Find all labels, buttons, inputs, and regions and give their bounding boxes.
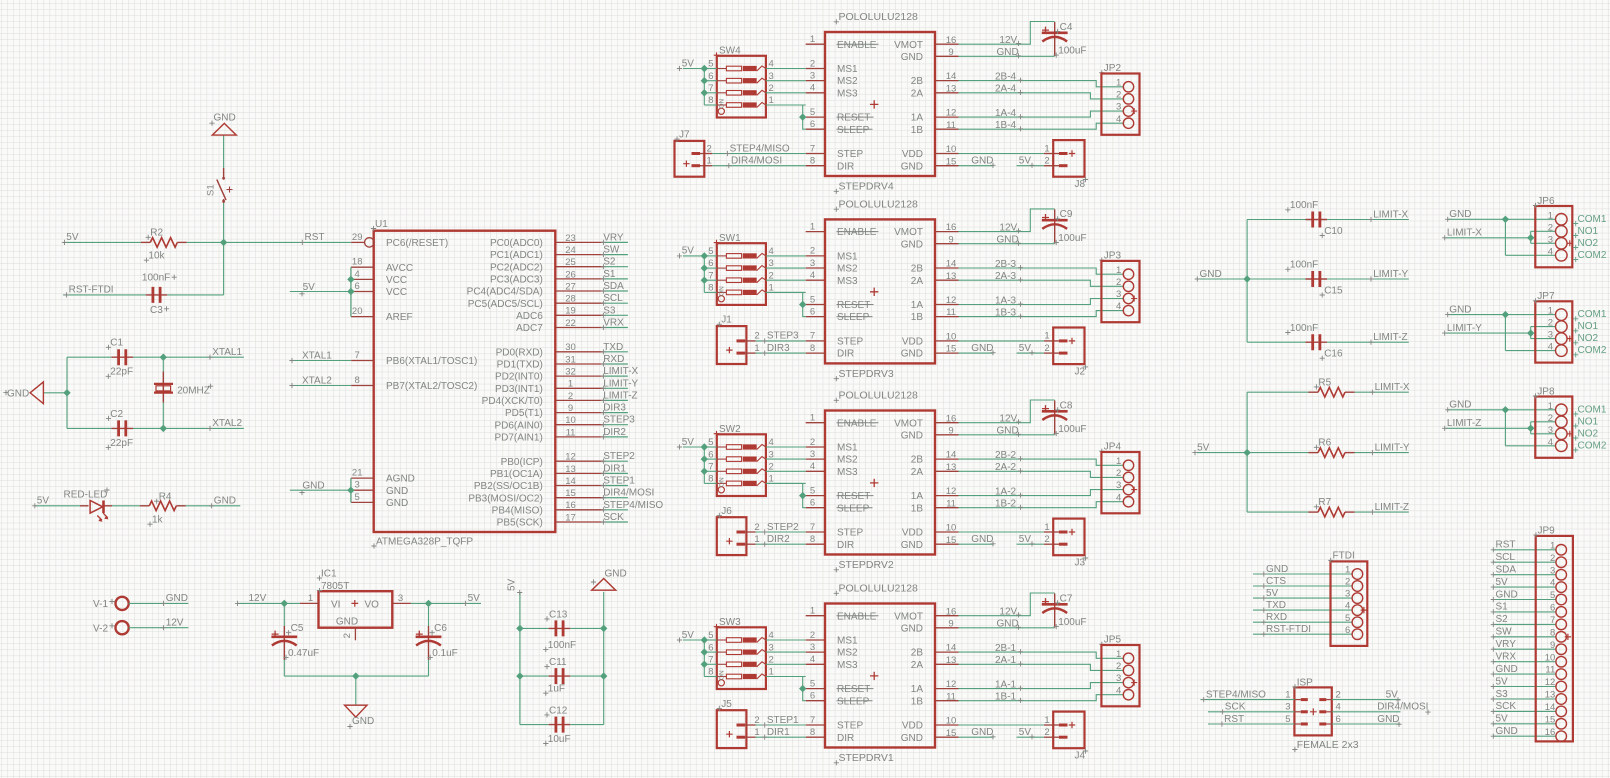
svg-text:4: 4 — [769, 630, 774, 641]
svg-text:6: 6 — [708, 449, 713, 460]
svg-text:1B: 1B — [911, 503, 924, 514]
svg-text:16: 16 — [946, 35, 957, 46]
svg-text:2B: 2B — [911, 455, 924, 466]
svg-text:SDA: SDA — [1496, 565, 1517, 576]
svg-text:VMOT: VMOT — [894, 40, 923, 51]
svg-text:J6: J6 — [721, 506, 732, 517]
svg-text:8: 8 — [810, 534, 815, 545]
svg-text:12V: 12V — [999, 414, 1017, 425]
svg-text:6: 6 — [708, 642, 713, 653]
svg-text:COM1: COM1 — [1578, 309, 1607, 320]
svg-text:2: 2 — [342, 633, 353, 638]
svg-text:12: 12 — [946, 108, 957, 119]
svg-text:GND: GND — [997, 426, 1019, 437]
svg-text:V-1: V-1 — [93, 599, 108, 610]
svg-text:14: 14 — [946, 71, 957, 82]
svg-text:4: 4 — [1336, 702, 1341, 713]
svg-text:PD5(T1): PD5(T1) — [505, 408, 543, 419]
svg-text:NO1: NO1 — [1578, 321, 1599, 332]
svg-text:2: 2 — [1550, 553, 1555, 564]
svg-text:5: 5 — [1550, 590, 1555, 601]
svg-text:PC2(ADC2): PC2(ADC2) — [490, 262, 543, 273]
svg-text:PC1(ADC1): PC1(ADC1) — [490, 250, 543, 261]
svg-text:PB2(SS/OC1B): PB2(SS/OC1B) — [474, 481, 543, 492]
svg-text:1: 1 — [1116, 265, 1121, 276]
svg-text:8: 8 — [810, 156, 815, 167]
svg-text:RESET: RESET — [837, 113, 870, 124]
svg-text:VDD: VDD — [902, 337, 923, 348]
svg-text:0.1uF: 0.1uF — [432, 648, 458, 659]
svg-text:SW: SW — [1496, 627, 1513, 638]
svg-text:11: 11 — [946, 120, 956, 131]
svg-text:25: 25 — [565, 257, 576, 268]
svg-text:4: 4 — [1116, 114, 1121, 125]
svg-text:C16: C16 — [1324, 349, 1343, 360]
svg-text:VRY: VRY — [1496, 639, 1517, 650]
svg-text:1: 1 — [1044, 143, 1049, 154]
svg-text:2: 2 — [1116, 661, 1121, 672]
svg-text:4: 4 — [355, 269, 360, 280]
svg-text:7: 7 — [355, 350, 360, 361]
svg-text:2A-2: 2A-2 — [995, 462, 1017, 473]
svg-text:C3: C3 — [150, 305, 163, 316]
svg-text:VRX: VRX — [1496, 652, 1517, 663]
svg-text:C6: C6 — [434, 623, 447, 634]
svg-text:2: 2 — [1116, 277, 1121, 288]
svg-text:10: 10 — [946, 716, 957, 727]
svg-text:C15: C15 — [1324, 285, 1343, 296]
svg-text:SCK: SCK — [1496, 701, 1517, 712]
svg-text:RED-LED: RED-LED — [64, 490, 108, 501]
svg-text:2B-1: 2B-1 — [995, 643, 1017, 654]
svg-text:GND: GND — [302, 481, 324, 492]
svg-text:GND: GND — [901, 349, 923, 360]
svg-text:27: 27 — [565, 281, 576, 292]
svg-text:VO: VO — [365, 599, 380, 610]
svg-text:VMOT: VMOT — [894, 227, 923, 238]
svg-text:2A: 2A — [911, 88, 924, 99]
svg-text:18: 18 — [352, 257, 363, 268]
svg-text:1A-4: 1A-4 — [995, 108, 1017, 119]
svg-text:SCK: SCK — [1225, 702, 1246, 713]
svg-text:SLEEP: SLEEP — [837, 312, 870, 323]
svg-text:GND: GND — [214, 113, 236, 124]
svg-text:1: 1 — [707, 156, 712, 167]
svg-text:3: 3 — [1548, 330, 1553, 341]
svg-text:PC5(ADC5/SCL): PC5(ADC5/SCL) — [468, 299, 543, 310]
svg-text:6: 6 — [355, 281, 360, 292]
svg-text:7805T: 7805T — [321, 581, 349, 592]
svg-text:1B-1: 1B-1 — [995, 692, 1017, 703]
svg-text:1: 1 — [1116, 456, 1121, 467]
svg-text:RXD: RXD — [1266, 612, 1287, 623]
svg-text:MS1: MS1 — [837, 443, 858, 454]
svg-text:GND: GND — [901, 540, 923, 551]
svg-text:2: 2 — [1044, 727, 1049, 738]
svg-text:STEP2: STEP2 — [767, 522, 799, 533]
svg-text:MS2: MS2 — [837, 648, 858, 659]
svg-text:1: 1 — [1116, 649, 1121, 660]
svg-text:1: 1 — [1044, 522, 1049, 533]
svg-text:C10: C10 — [1324, 226, 1343, 237]
svg-text:5V: 5V — [1386, 689, 1399, 700]
svg-text:SLEEP: SLEEP — [837, 125, 870, 136]
svg-text:3: 3 — [1116, 289, 1121, 300]
svg-text:GND: GND — [166, 593, 188, 604]
svg-text:8: 8 — [1550, 627, 1555, 638]
svg-text:3: 3 — [1548, 234, 1553, 245]
svg-text:4: 4 — [810, 461, 815, 472]
svg-text:VDD: VDD — [902, 149, 923, 160]
svg-text:1: 1 — [810, 606, 815, 617]
svg-text:MS1: MS1 — [837, 64, 858, 75]
svg-text:7: 7 — [708, 655, 713, 666]
svg-text:R2: R2 — [150, 228, 163, 239]
svg-text:26: 26 — [565, 269, 576, 280]
svg-text:LIMIT-Z: LIMIT-Z — [1373, 332, 1407, 343]
svg-text:SLEEP: SLEEP — [837, 503, 870, 514]
svg-text:8: 8 — [708, 283, 713, 294]
svg-text:PB7(XTAL2/TOSC2): PB7(XTAL2/TOSC2) — [386, 381, 477, 392]
svg-text:3: 3 — [810, 642, 815, 653]
svg-text:1: 1 — [754, 727, 759, 738]
svg-text:4: 4 — [810, 83, 815, 94]
svg-text:2B: 2B — [911, 264, 924, 275]
svg-text:16: 16 — [565, 500, 576, 511]
svg-text:11: 11 — [946, 691, 956, 702]
svg-text:100uF: 100uF — [1058, 424, 1086, 435]
svg-text:DIR: DIR — [837, 161, 854, 172]
svg-text:STEP3: STEP3 — [767, 331, 799, 342]
svg-text:ON: ON — [718, 670, 725, 680]
svg-text:GND: GND — [214, 496, 236, 507]
svg-text:100nF: 100nF — [1290, 323, 1318, 334]
svg-text:C13: C13 — [549, 609, 568, 620]
svg-text:4: 4 — [1548, 437, 1553, 448]
svg-text:SCL: SCL — [603, 293, 623, 304]
svg-text:TXD: TXD — [603, 342, 623, 353]
svg-text:4: 4 — [769, 437, 774, 448]
svg-text:PC0(ADC0): PC0(ADC0) — [490, 238, 543, 249]
svg-text:S1: S1 — [206, 184, 217, 196]
svg-text:14: 14 — [946, 259, 957, 270]
svg-text:9: 9 — [948, 425, 953, 436]
svg-text:1A-3: 1A-3 — [995, 295, 1017, 306]
svg-text:COM1: COM1 — [1578, 214, 1607, 225]
svg-text:2B-3: 2B-3 — [995, 259, 1017, 270]
svg-text:GND: GND — [971, 534, 993, 545]
svg-text:J8: J8 — [1075, 179, 1086, 190]
svg-text:GND: GND — [1449, 400, 1471, 411]
svg-text:6: 6 — [708, 258, 713, 269]
svg-text:4: 4 — [769, 59, 774, 70]
svg-text:2: 2 — [1044, 534, 1049, 545]
svg-text:2: 2 — [1044, 343, 1049, 354]
svg-text:1: 1 — [1285, 689, 1290, 700]
svg-text:3: 3 — [355, 480, 360, 491]
svg-text:100nF: 100nF — [1290, 200, 1318, 211]
svg-text:2: 2 — [810, 246, 815, 257]
svg-text:5V: 5V — [303, 282, 316, 293]
svg-text:13: 13 — [565, 464, 576, 475]
svg-text:5: 5 — [810, 678, 815, 689]
svg-text:15: 15 — [565, 488, 576, 499]
svg-text:S1: S1 — [1496, 602, 1509, 613]
svg-text:GND: GND — [971, 343, 993, 354]
svg-text:2A: 2A — [911, 660, 924, 671]
svg-text:GND: GND — [971, 156, 993, 167]
svg-text:STEP: STEP — [837, 721, 863, 732]
svg-text:SCL: SCL — [1496, 552, 1516, 563]
svg-text:2B-4: 2B-4 — [995, 71, 1017, 82]
svg-text:12: 12 — [946, 295, 957, 306]
svg-text:COM2: COM2 — [1578, 250, 1607, 261]
svg-text:10: 10 — [946, 523, 957, 534]
svg-text:1: 1 — [810, 34, 815, 45]
svg-text:R7: R7 — [1318, 497, 1331, 508]
svg-text:4: 4 — [1550, 578, 1555, 589]
svg-text:5V: 5V — [682, 58, 695, 69]
svg-text:LIMIT-X: LIMIT-X — [1373, 209, 1408, 220]
svg-text:1: 1 — [810, 221, 815, 232]
svg-text:VDD: VDD — [902, 721, 923, 732]
svg-text:16: 16 — [1545, 727, 1556, 738]
svg-text:10: 10 — [565, 415, 576, 426]
svg-text:2: 2 — [707, 143, 712, 154]
svg-text:1A: 1A — [911, 113, 924, 124]
svg-text:3: 3 — [1548, 425, 1553, 436]
svg-text:COM2: COM2 — [1578, 345, 1607, 356]
svg-text:GND: GND — [1496, 664, 1518, 675]
svg-text:ON: ON — [718, 98, 725, 108]
svg-text:PD3(INT1): PD3(INT1) — [495, 384, 543, 395]
svg-text:DIR1: DIR1 — [603, 463, 626, 474]
svg-text:GND: GND — [336, 616, 358, 627]
svg-text:5V: 5V — [1197, 442, 1210, 453]
svg-text:GND: GND — [386, 498, 408, 509]
svg-text:LIMIT-X: LIMIT-X — [1375, 382, 1410, 393]
svg-text:6: 6 — [1336, 714, 1341, 725]
svg-text:VMOT: VMOT — [894, 611, 923, 622]
svg-text:RESET: RESET — [837, 684, 870, 695]
svg-text:5V: 5V — [1496, 577, 1509, 588]
svg-text:15: 15 — [946, 728, 957, 739]
svg-text:SLEEP: SLEEP — [837, 696, 870, 707]
svg-text:GND: GND — [605, 569, 627, 580]
svg-text:PD7(AIN1): PD7(AIN1) — [494, 433, 542, 444]
svg-text:PB3(MOSI/OC2): PB3(MOSI/OC2) — [468, 493, 542, 504]
svg-text:POLOLULU2128: POLOLULU2128 — [839, 583, 919, 595]
svg-text:RST: RST — [305, 232, 325, 243]
svg-text:LIMIT-Y: LIMIT-Y — [1447, 323, 1482, 334]
svg-text:2B-2: 2B-2 — [995, 450, 1017, 461]
svg-text:4: 4 — [810, 270, 815, 281]
svg-text:ATMEGA328P_TQFP: ATMEGA328P_TQFP — [376, 537, 473, 548]
svg-text:TXD: TXD — [1266, 600, 1286, 611]
svg-text:2: 2 — [810, 437, 815, 448]
svg-text:STEP1: STEP1 — [603, 476, 635, 487]
svg-text:29: 29 — [352, 232, 363, 243]
svg-text:0.47uF: 0.47uF — [288, 648, 319, 659]
svg-text:C12: C12 — [549, 705, 568, 716]
svg-text:3: 3 — [810, 70, 815, 81]
svg-text:1: 1 — [1044, 715, 1049, 726]
svg-text:LIMIT-Z: LIMIT-Z — [1447, 418, 1481, 429]
svg-text:1: 1 — [754, 343, 759, 354]
svg-text:JP8: JP8 — [1537, 386, 1555, 397]
svg-text:LIMIT-Y: LIMIT-Y — [1373, 269, 1408, 280]
svg-text:3: 3 — [1550, 565, 1555, 576]
svg-text:7: 7 — [708, 83, 713, 94]
svg-text:5V: 5V — [682, 630, 695, 641]
svg-text:GND: GND — [971, 727, 993, 738]
svg-text:MS3: MS3 — [837, 88, 858, 99]
svg-text:16: 16 — [946, 222, 957, 233]
svg-text:10: 10 — [946, 332, 957, 343]
svg-text:VDD: VDD — [902, 528, 923, 539]
svg-text:DIR1: DIR1 — [767, 727, 790, 738]
svg-text:2B: 2B — [911, 76, 924, 87]
svg-text:GND: GND — [997, 619, 1019, 630]
svg-text:2: 2 — [769, 83, 774, 94]
svg-text:15: 15 — [946, 156, 957, 167]
svg-text:1B-3: 1B-3 — [995, 307, 1017, 318]
svg-text:ON: ON — [718, 286, 725, 296]
svg-text:LIMIT-Z: LIMIT-Z — [603, 390, 637, 401]
svg-text:2: 2 — [1116, 468, 1121, 479]
svg-text:11: 11 — [946, 307, 956, 318]
svg-text:10: 10 — [946, 144, 957, 155]
svg-text:MS2: MS2 — [837, 76, 858, 87]
svg-text:5V: 5V — [682, 246, 695, 257]
svg-text:1: 1 — [1548, 401, 1553, 412]
svg-text:V-2: V-2 — [93, 624, 108, 635]
svg-text:4: 4 — [1548, 246, 1553, 257]
svg-text:CTS: CTS — [1266, 576, 1286, 587]
svg-text:20MHZ: 20MHZ — [177, 385, 210, 396]
svg-text:STEPDRV2: STEPDRV2 — [839, 559, 894, 571]
svg-text:GND: GND — [1200, 269, 1222, 280]
svg-text:16: 16 — [946, 413, 957, 424]
svg-text:1B-4: 1B-4 — [995, 120, 1017, 131]
svg-text:5V: 5V — [1266, 588, 1279, 599]
svg-text:MS3: MS3 — [837, 467, 858, 478]
svg-text:19: 19 — [565, 306, 576, 317]
svg-text:2: 2 — [754, 715, 759, 726]
svg-text:1: 1 — [1548, 306, 1553, 317]
svg-text:4: 4 — [1116, 301, 1121, 312]
svg-text:XTAL1: XTAL1 — [212, 347, 242, 358]
svg-text:17: 17 — [565, 512, 576, 523]
svg-text:1A-2: 1A-2 — [995, 486, 1017, 497]
svg-text:9: 9 — [948, 47, 953, 58]
svg-text:COM1: COM1 — [1578, 404, 1607, 415]
svg-text:2: 2 — [810, 58, 815, 69]
svg-text:ISP: ISP — [1297, 677, 1313, 688]
svg-text:1: 1 — [1116, 77, 1121, 88]
svg-text:SDA: SDA — [603, 281, 624, 292]
svg-text:31: 31 — [565, 354, 576, 365]
svg-text:RST: RST — [1224, 714, 1244, 725]
svg-text:3: 3 — [810, 258, 815, 269]
svg-text:GND: GND — [1449, 304, 1471, 315]
svg-text:4: 4 — [769, 246, 774, 257]
svg-text:9: 9 — [568, 403, 573, 414]
svg-text:12V: 12V — [166, 618, 184, 629]
svg-text:C2: C2 — [110, 409, 123, 420]
svg-text:VI: VI — [331, 599, 340, 610]
svg-text:2B: 2B — [911, 648, 924, 659]
svg-text:5V: 5V — [1496, 676, 1509, 687]
svg-text:JP7: JP7 — [1537, 291, 1555, 302]
svg-text:7: 7 — [810, 522, 815, 533]
svg-text:GND: GND — [997, 47, 1019, 58]
svg-text:PD6(AIN0): PD6(AIN0) — [494, 420, 542, 431]
svg-text:STEP: STEP — [837, 149, 863, 160]
svg-text:DIR3: DIR3 — [603, 403, 626, 414]
svg-text:3: 3 — [1116, 480, 1121, 491]
svg-text:2: 2 — [769, 462, 774, 473]
svg-text:22pF: 22pF — [110, 438, 133, 449]
svg-text:NO1: NO1 — [1578, 226, 1599, 237]
svg-text:PB6(XTAL1/TOSC1): PB6(XTAL1/TOSC1) — [386, 356, 477, 367]
svg-text:MS1: MS1 — [837, 636, 858, 647]
svg-text:DIR3: DIR3 — [767, 343, 790, 354]
svg-text:STEPDRV4: STEPDRV4 — [839, 181, 894, 193]
svg-text:2A: 2A — [911, 276, 924, 287]
svg-text:MS3: MS3 — [837, 660, 858, 671]
svg-text:5V: 5V — [37, 496, 50, 507]
svg-text:2: 2 — [1548, 413, 1553, 424]
svg-text:DIR: DIR — [837, 540, 854, 551]
svg-text:PD4(XCK/T0): PD4(XCK/T0) — [482, 396, 543, 407]
svg-text:3: 3 — [769, 642, 774, 653]
svg-text:100uF: 100uF — [1058, 46, 1086, 57]
svg-text:11: 11 — [566, 427, 576, 438]
svg-text:2A: 2A — [911, 467, 924, 478]
svg-text:2: 2 — [1044, 156, 1049, 167]
svg-text:C1: C1 — [110, 338, 123, 349]
svg-text:DIR2: DIR2 — [767, 534, 790, 545]
svg-text:IC1: IC1 — [321, 569, 337, 580]
svg-text:U1: U1 — [375, 219, 388, 230]
svg-text:R6: R6 — [1318, 438, 1331, 449]
svg-text:PC6(/RESET): PC6(/RESET) — [386, 238, 448, 249]
svg-text:R5: R5 — [1318, 377, 1331, 388]
svg-text:VMOT: VMOT — [894, 418, 923, 429]
svg-text:DIR: DIR — [837, 349, 854, 360]
svg-text:13: 13 — [946, 655, 957, 666]
svg-text:1: 1 — [810, 413, 815, 424]
svg-text:13: 13 — [946, 83, 957, 94]
svg-text:S2: S2 — [1496, 614, 1509, 625]
svg-text:DIR4/MOSI: DIR4/MOSI — [603, 488, 654, 499]
svg-text:10k: 10k — [148, 251, 165, 262]
svg-text:PB0(ICP): PB0(ICP) — [501, 457, 543, 468]
svg-text:2: 2 — [754, 331, 759, 342]
svg-text:5: 5 — [708, 630, 713, 641]
svg-text:21: 21 — [352, 468, 363, 479]
svg-text:6: 6 — [810, 306, 815, 317]
svg-text:9: 9 — [948, 618, 953, 629]
svg-text:5: 5 — [810, 107, 815, 118]
svg-text:10: 10 — [1545, 652, 1556, 663]
svg-text:STEP2: STEP2 — [603, 451, 635, 462]
svg-text:GND: GND — [1266, 564, 1288, 575]
svg-text:100nF: 100nF — [1290, 260, 1318, 271]
svg-text:SW: SW — [603, 245, 620, 256]
svg-text:6: 6 — [810, 691, 815, 702]
